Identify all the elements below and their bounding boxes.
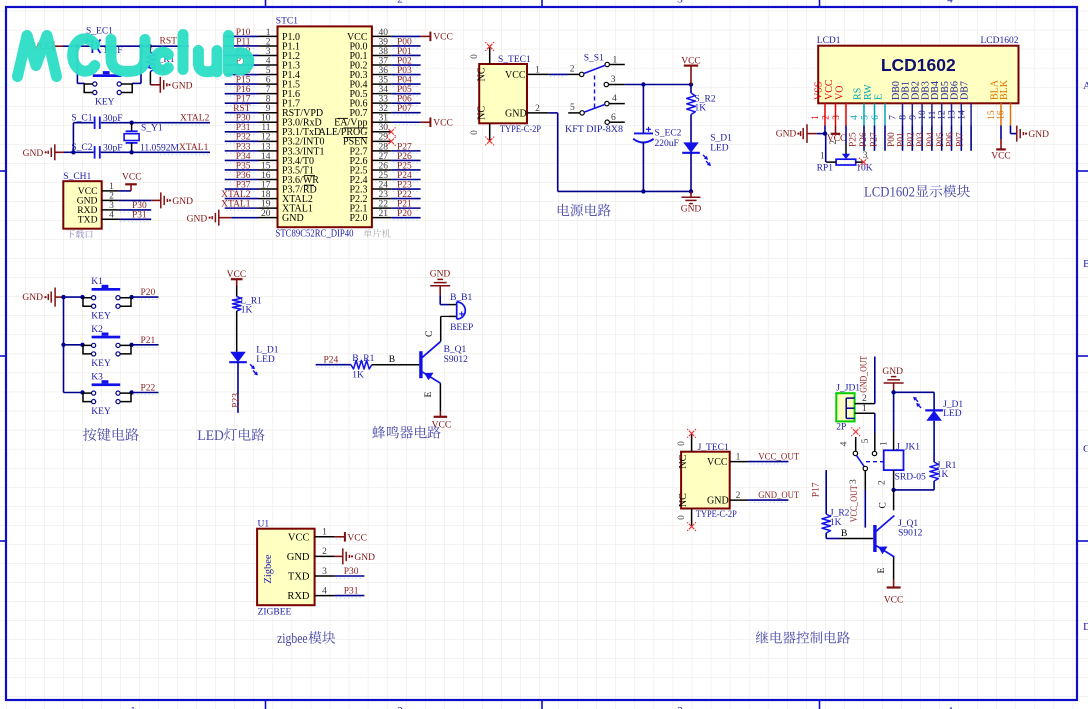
svg-text:P20: P20 <box>397 209 412 219</box>
pin 23 P2.2 (STC1) <box>349 190 391 205</box>
svg-text:GND: GND <box>505 108 527 119</box>
svg-text:25: 25 <box>379 171 389 181</box>
svg-text:E: E <box>873 94 884 100</box>
svg-text:20: 20 <box>261 209 271 219</box>
wire XTAL2 <box>73 122 210 124</box>
LED J_D1 <box>913 392 963 462</box>
buzzer B_B1 BEEP <box>449 293 473 333</box>
svg-text:P02: P02 <box>397 56 412 66</box>
pin 12 DB5 (LCD1) <box>938 81 952 125</box>
svg-text:11: 11 <box>928 110 938 119</box>
svg-text:KEY: KEY <box>95 98 115 108</box>
svg-text:P00: P00 <box>887 132 897 147</box>
svg-text:GND_OUT: GND_OUT <box>758 491 799 501</box>
svg-text:P17: P17 <box>811 482 821 497</box>
svg-text:P07: P07 <box>397 104 412 114</box>
svg-text:23: 23 <box>379 190 389 200</box>
wire+net label P34 (STC1 pin 14) <box>225 152 259 163</box>
section label LED circuit <box>197 428 264 444</box>
pin 35 P0.4 (STC1) <box>349 76 391 91</box>
svg-text:P17: P17 <box>236 95 251 105</box>
pin 10 P3.0/RxD (STC1) <box>259 114 322 129</box>
svg-text:RST: RST <box>160 37 178 47</box>
net label P31 (S_CH1) <box>119 210 151 221</box>
junction crystal top <box>129 121 133 125</box>
pin 38 P0.1 (STC1) <box>349 47 391 62</box>
svg-text:NC: NC <box>678 454 689 468</box>
svg-text:P15: P15 <box>236 76 251 86</box>
ground GND (buzzer) <box>430 269 451 295</box>
wire+net label P27 (STC1 pin 28) <box>391 142 420 153</box>
svg-text:P27: P27 <box>869 132 879 147</box>
connector J_JD1 2P <box>836 383 860 432</box>
wire+net label P20 (K1) <box>131 288 159 299</box>
wire+net label P04 (LCD1 pin 11) <box>926 126 942 151</box>
wire+net label P32 (STC1 pin 12) <box>225 133 259 144</box>
svg-text:1: 1 <box>266 28 271 38</box>
wire+net label P30 (zigbee) <box>335 567 365 578</box>
switch (relay) pins 4/5/3 <box>840 427 885 490</box>
ground GND (power circuit) <box>681 191 702 214</box>
svg-text:14: 14 <box>957 110 967 120</box>
svg-text:LED: LED <box>943 409 962 419</box>
power port VCC (power circuit) <box>681 56 701 84</box>
svg-text:S_C1: S_C1 <box>71 113 92 123</box>
svg-text:3: 3 <box>611 75 616 85</box>
svg-text:3: 3 <box>322 567 327 577</box>
no-connect X (STC1 pin 29) <box>387 137 396 146</box>
pin 22 P2.1 (STC1) <box>349 200 391 215</box>
connector S_TEC1 TYPE-C-2P <box>479 55 541 135</box>
key switch K1 KEY <box>83 277 131 321</box>
svg-text:VCC: VCC <box>991 151 1011 161</box>
svg-text:P31: P31 <box>132 210 147 220</box>
pin 5 RW (LCD1) <box>861 84 875 126</box>
svg-text:K2: K2 <box>91 325 103 335</box>
wire+net label P13 (STC1 pin 4) <box>225 56 259 67</box>
svg-text:XTAL2: XTAL2 <box>221 190 251 200</box>
junction cap bottom <box>641 189 645 193</box>
pin 15 P3.5/T1 (STC1) <box>259 161 314 176</box>
wire+net label P00 (STC1 pin 39) <box>391 37 420 48</box>
svg-text:4: 4 <box>840 441 850 446</box>
svg-text:P22: P22 <box>141 384 156 394</box>
key switch K2 KEY <box>83 325 131 369</box>
svg-text:2: 2 <box>322 547 327 557</box>
svg-text:2: 2 <box>822 115 832 120</box>
section label zigbee module <box>277 631 335 647</box>
svg-text:B_B1: B_B1 <box>450 293 472 303</box>
svg-text:NC: NC <box>678 493 689 507</box>
wire+net label P07 (STC1 pin 32) <box>391 104 420 115</box>
pin 39 P0.0 (STC1) <box>349 37 391 52</box>
svg-text:2: 2 <box>862 394 867 404</box>
svg-text:10: 10 <box>918 110 928 120</box>
wire key bus <box>63 297 65 392</box>
svg-text:P10: P10 <box>236 28 251 38</box>
wire+net label P03 (LCD1 pin 10) <box>916 126 932 151</box>
pin 1 (J_JD1) <box>855 404 875 414</box>
wire+net label GND_OUT (vertical) <box>859 356 874 404</box>
pin 30 ALE/PROG (STC1) <box>319 123 392 138</box>
svg-text:GND: GND <box>681 204 702 214</box>
svg-text:1: 1 <box>613 56 618 66</box>
power port VCC (relay) <box>884 580 904 606</box>
svg-text:VCC: VCC <box>884 595 904 605</box>
wire+net label P23 (STC1 pin 24) <box>391 180 420 191</box>
wire JD1 pin1 to switch pin5 <box>874 413 876 451</box>
svg-text:19: 19 <box>261 200 271 210</box>
svg-text:P26: P26 <box>397 152 412 162</box>
svg-text:P33: P33 <box>236 142 251 152</box>
pin 1 VSS (LCD1) <box>811 82 825 126</box>
svg-text:BEEP: BEEP <box>450 323 473 333</box>
svg-text:Zigbee: Zigbee <box>263 554 274 583</box>
pin 3 RXD (S_CH1) <box>77 201 119 216</box>
svg-text:P30: P30 <box>344 567 359 577</box>
svg-text:DB7: DB7 <box>960 81 971 100</box>
svg-text:28: 28 <box>379 142 389 152</box>
wire+net label VCC_OUT (vertical) <box>850 485 865 527</box>
svg-text:1K: 1K <box>695 103 707 113</box>
svg-text:1: 1 <box>130 705 136 709</box>
svg-text:ZIGBEE: ZIGBEE <box>258 607 292 617</box>
junction gnd node <box>891 390 895 394</box>
svg-text:VCC: VCC <box>347 534 367 544</box>
svg-text:36: 36 <box>379 66 389 76</box>
svg-text:J_JD1: J_JD1 <box>836 383 860 393</box>
wire+net label P02 (LCD1 pin 9) <box>906 126 922 151</box>
svg-text:P32: P32 <box>236 133 251 143</box>
IC LCD1 LCD1602 <box>817 36 1019 103</box>
net label XTAL1 <box>160 143 209 155</box>
wire XTAL1 <box>73 123 210 153</box>
pin 3 TXD (U1) <box>288 567 335 583</box>
svg-text:2: 2 <box>266 37 271 47</box>
overline WR <box>304 175 315 177</box>
pin 21 P2.0 (STC1) <box>349 209 391 224</box>
svg-text:3: 3 <box>849 479 859 484</box>
svg-text:P05: P05 <box>397 85 412 95</box>
svg-text:5: 5 <box>266 66 271 76</box>
ground GND (crystal) <box>23 144 74 160</box>
svg-text:VCC: VCC <box>824 79 835 100</box>
svg-text:P06: P06 <box>397 95 412 105</box>
resistor S_R1 10K <box>146 46 175 85</box>
svg-text:1: 1 <box>736 452 741 462</box>
svg-text:21: 21 <box>379 209 389 219</box>
power port VCC (LED circuit) <box>227 270 247 286</box>
ground GND (keys) <box>22 288 63 307</box>
svg-text:XTAL1: XTAL1 <box>179 143 209 153</box>
svg-text:0: 0 <box>469 130 479 135</box>
pin 1 VCC (S_CH1) <box>78 182 119 197</box>
pin 4 TXD (S_CH1) <box>78 211 119 226</box>
transistor B_Q1 S9012 <box>421 341 468 383</box>
svg-text:3: 3 <box>266 47 271 57</box>
svg-text:10: 10 <box>261 114 271 124</box>
pin 6 E (LCD1) <box>871 94 885 126</box>
svg-text:STC89C52RC_DIP40: STC89C52RC_DIP40 <box>276 229 354 240</box>
junction cap top <box>641 82 645 86</box>
svg-text:3: 3 <box>677 705 683 709</box>
ground GND (zigbee) <box>335 548 376 564</box>
svg-text:SRD-05: SRD-05 <box>895 472 926 482</box>
svg-text:1: 1 <box>820 152 825 162</box>
svg-text:P21: P21 <box>397 200 412 210</box>
wire+net label P26 (LCD1 pin 5) <box>859 126 875 151</box>
power port VCC (STC1 pin 31) <box>391 117 453 128</box>
svg-text:E: E <box>424 392 434 398</box>
svg-text:4: 4 <box>109 211 114 221</box>
section label relay control circuit <box>756 631 850 644</box>
wire+net label GND_OUT <box>748 491 799 502</box>
pin 25 P2.4 (STC1) <box>349 171 391 186</box>
overline PROG <box>344 127 368 129</box>
svg-text:220uF: 220uF <box>655 139 679 149</box>
svg-text:P03: P03 <box>397 66 412 76</box>
svg-text:2: 2 <box>736 491 741 501</box>
svg-text:P34: P34 <box>236 152 251 162</box>
svg-text:2: 2 <box>828 140 838 145</box>
svg-text:GND: GND <box>23 149 44 159</box>
label download port <box>66 230 92 238</box>
pin 32 P0.7 (STC1) <box>349 104 391 119</box>
power port VCC (LCD BLA) <box>991 126 1011 162</box>
IC U STC1 STC89C52RC_DIP40 <box>276 17 372 240</box>
pin 4 P1.3 (STC1) <box>259 56 301 71</box>
svg-text:zigbee: zigbee <box>277 631 308 647</box>
pin 27 P2.6 (STC1) <box>349 152 391 167</box>
pin 2 GND (J_TEC1) <box>707 491 748 507</box>
svg-text:2: 2 <box>397 705 403 709</box>
net label RST <box>144 37 190 49</box>
pin 1 VCC (J_TEC1) <box>707 452 748 468</box>
svg-text:1: 1 <box>862 404 867 414</box>
svg-text:P36: P36 <box>236 171 251 181</box>
wire+net label P06 (LCD1 pin 13) <box>946 126 962 151</box>
wire bus to K3 <box>64 392 85 394</box>
wire+net label P15 (STC1 pin 6) <box>225 76 259 87</box>
svg-text:1K: 1K <box>241 306 253 316</box>
svg-text:0: 0 <box>676 441 686 446</box>
power port VCC (S_CH1) <box>119 172 142 191</box>
svg-text:33: 33 <box>379 95 389 105</box>
pin 0 top (S_TEC1) with no-connect <box>469 42 495 64</box>
svg-text:1: 1 <box>322 528 327 538</box>
svg-text:TXD: TXD <box>78 215 98 226</box>
svg-text:C: C <box>879 502 889 508</box>
section label power circuit <box>558 204 611 217</box>
resistor L_R1 1K <box>232 286 262 316</box>
svg-text:16: 16 <box>261 171 271 181</box>
svg-text:30pF: 30pF <box>103 114 123 124</box>
wire+net label P22 (K3) <box>131 384 159 395</box>
pin 1 P1.0 (STC1) <box>259 28 301 43</box>
resistor J_R2 1K <box>822 509 850 533</box>
wire VCC-RST <box>63 45 189 47</box>
svg-text:P22: P22 <box>397 190 412 200</box>
svg-text:1K: 1K <box>352 371 364 381</box>
svg-text:9: 9 <box>266 104 271 114</box>
svg-text:P04: P04 <box>397 76 412 86</box>
svg-text:STC1: STC1 <box>276 17 298 27</box>
pin 10 DB3 (LCD1) <box>918 81 932 125</box>
section label key circuit <box>83 428 139 441</box>
power port VCC (STC1 pin 40) <box>391 32 453 43</box>
svg-text:30pF: 30pF <box>103 143 123 153</box>
wire+net label P36 (STC1 pin 16) <box>225 171 259 182</box>
section label LCD1602 display module <box>864 184 970 200</box>
svg-text:1: 1 <box>811 115 821 120</box>
wire+net label P01 (LCD1 pin 8) <box>897 126 913 151</box>
svg-text:P05: P05 <box>936 132 946 147</box>
svg-text:27: 27 <box>379 152 389 162</box>
pin 1 VCC (U1) <box>288 528 335 544</box>
pin 2 (J_JD1) <box>855 394 875 404</box>
svg-text:B: B <box>1083 258 1088 270</box>
svg-text:11: 11 <box>261 123 270 133</box>
connector J_TEC1 TYPE-C-2P <box>681 443 737 520</box>
svg-text:P07: P07 <box>955 132 965 147</box>
junction LED bottom <box>689 189 693 193</box>
svg-text:P03: P03 <box>916 132 926 147</box>
pin NC labels (J_TEC1) <box>678 454 689 507</box>
pin 29 PSEN (STC1) <box>343 133 391 148</box>
svg-text:XTAL2: XTAL2 <box>180 113 210 123</box>
pin 2 GND (S_CH1) <box>77 192 119 207</box>
svg-text:A: A <box>1083 80 1088 92</box>
ground GND (LCD BLK) <box>1011 126 1050 142</box>
svg-text:1: 1 <box>535 66 540 76</box>
pin 2 GND (S_TEC1) <box>505 104 549 119</box>
wire+net label P35 (STC1 pin 15) <box>225 161 259 172</box>
svg-text:P37: P37 <box>236 180 251 190</box>
svg-text:LED: LED <box>197 428 224 444</box>
LED S_D1 <box>682 115 732 192</box>
svg-text:15: 15 <box>987 110 997 120</box>
svg-text:2: 2 <box>109 192 114 202</box>
svg-text:P20: P20 <box>141 288 156 298</box>
svg-text:P24: P24 <box>324 356 339 366</box>
svg-text:KEY: KEY <box>91 359 111 369</box>
svg-text:VCC: VCC <box>122 172 142 182</box>
svg-text:14: 14 <box>261 152 271 162</box>
svg-text:15: 15 <box>261 161 271 171</box>
pin 24 P2.3 (STC1) <box>349 180 391 195</box>
svg-text:P26: P26 <box>859 132 869 147</box>
wire VO to potentiometer wiper <box>845 126 847 155</box>
pin 2 P1.1 (STC1) <box>259 37 301 52</box>
svg-text:S9012: S9012 <box>898 528 923 538</box>
LED L_D1 <box>229 345 279 375</box>
pin 14 P3.4/T0 (STC1) <box>259 152 314 167</box>
svg-text:12: 12 <box>938 110 948 120</box>
pin 17 P3.7/RD (STC1) <box>259 180 317 195</box>
svg-text:P00: P00 <box>397 37 412 47</box>
pin 9 RST/VPD (STC1) <box>259 104 324 119</box>
wire+net label P03 (STC1 pin 36) <box>391 66 420 77</box>
junction crystal bottom <box>71 150 134 154</box>
svg-text:2: 2 <box>877 480 887 485</box>
key switch S_K1 KEY <box>84 71 132 107</box>
pin 1 VCC (S_TEC1) <box>505 66 549 81</box>
svg-text:RP1: RP1 <box>817 164 834 174</box>
pin 15 BLA (LCD1) <box>987 79 1001 125</box>
power port VCC (buzzer) <box>432 412 452 431</box>
svg-text:18: 18 <box>261 190 271 200</box>
ground GND (STC1 pin 20) <box>187 210 259 226</box>
svg-text:K3: K3 <box>91 373 103 383</box>
svg-text:P04: P04 <box>926 132 936 147</box>
ground GND (S_CH1) <box>119 192 193 208</box>
overline PSEN <box>344 136 368 138</box>
wire emitter (relay) <box>877 557 894 580</box>
svg-text:0: 0 <box>469 54 479 59</box>
pin 8 DB1 (LCD1) <box>899 81 913 125</box>
pin 40 VCC (STC1) <box>347 28 391 43</box>
ground GND (LCD left) <box>776 124 825 143</box>
wire+net label XTAL2 (STC1 pin 18) <box>221 190 258 201</box>
svg-text:12: 12 <box>261 133 271 143</box>
svg-text:6: 6 <box>871 115 881 120</box>
net label XTAL2 <box>160 113 210 125</box>
wire+net label XTAL1 (STC1 pin 19) <box>221 200 258 211</box>
wire+net label RST (STC1 pin 9) <box>225 104 259 115</box>
svg-text:C: C <box>1083 443 1088 455</box>
wire emitter to VCC <box>424 383 441 412</box>
svg-text:GND: GND <box>172 81 193 91</box>
svg-text:17: 17 <box>261 180 271 190</box>
wire+net label P30 (STC1 pin 10) <box>225 114 259 125</box>
svg-text:3: 3 <box>832 115 842 120</box>
junction node cap left <box>75 44 79 48</box>
power port VCC (zigbee) <box>335 532 367 544</box>
crystal S_Y1 11.0592M <box>124 123 179 154</box>
wire+net label VCC_OUT <box>748 453 799 464</box>
watermark MCUclub <box>18 35 249 77</box>
svg-text:34: 34 <box>379 85 389 95</box>
svg-text:VCC: VCC <box>505 70 526 81</box>
svg-text:1K: 1K <box>937 470 949 480</box>
svg-text:TYPE-C-2P: TYPE-C-2P <box>500 125 541 135</box>
svg-text:10K: 10K <box>856 164 873 174</box>
pin 26 P2.5 (STC1) <box>349 161 391 176</box>
svg-text:39: 39 <box>379 37 389 47</box>
svg-text:22: 22 <box>379 200 389 210</box>
wire+net label P10 (STC1 pin 1) <box>225 28 259 39</box>
svg-text:5: 5 <box>570 103 575 113</box>
svg-text:GND: GND <box>354 553 375 563</box>
resistor J_R1 1K <box>894 461 957 490</box>
wire+net label P14 (STC1 pin 5) <box>225 66 259 77</box>
svg-text:P24: P24 <box>397 171 412 181</box>
svg-text:RST: RST <box>233 104 251 114</box>
svg-text:31: 31 <box>379 114 389 124</box>
wire bus to K1 <box>64 296 85 298</box>
svg-text:4: 4 <box>612 94 617 104</box>
svg-text:VCC: VCC <box>707 457 728 468</box>
svg-text:GND: GND <box>430 269 451 279</box>
svg-text:8: 8 <box>266 95 271 105</box>
svg-text:GND: GND <box>187 214 208 224</box>
svg-text:P31: P31 <box>344 587 359 597</box>
no-connect X (RP1 pin3) <box>859 158 868 167</box>
svg-text:LCD1602: LCD1602 <box>864 184 915 200</box>
wire+net label P31 (zigbee) <box>335 587 365 598</box>
svg-text:XTAL1: XTAL1 <box>221 200 251 210</box>
ground GND (relay) <box>882 367 903 392</box>
